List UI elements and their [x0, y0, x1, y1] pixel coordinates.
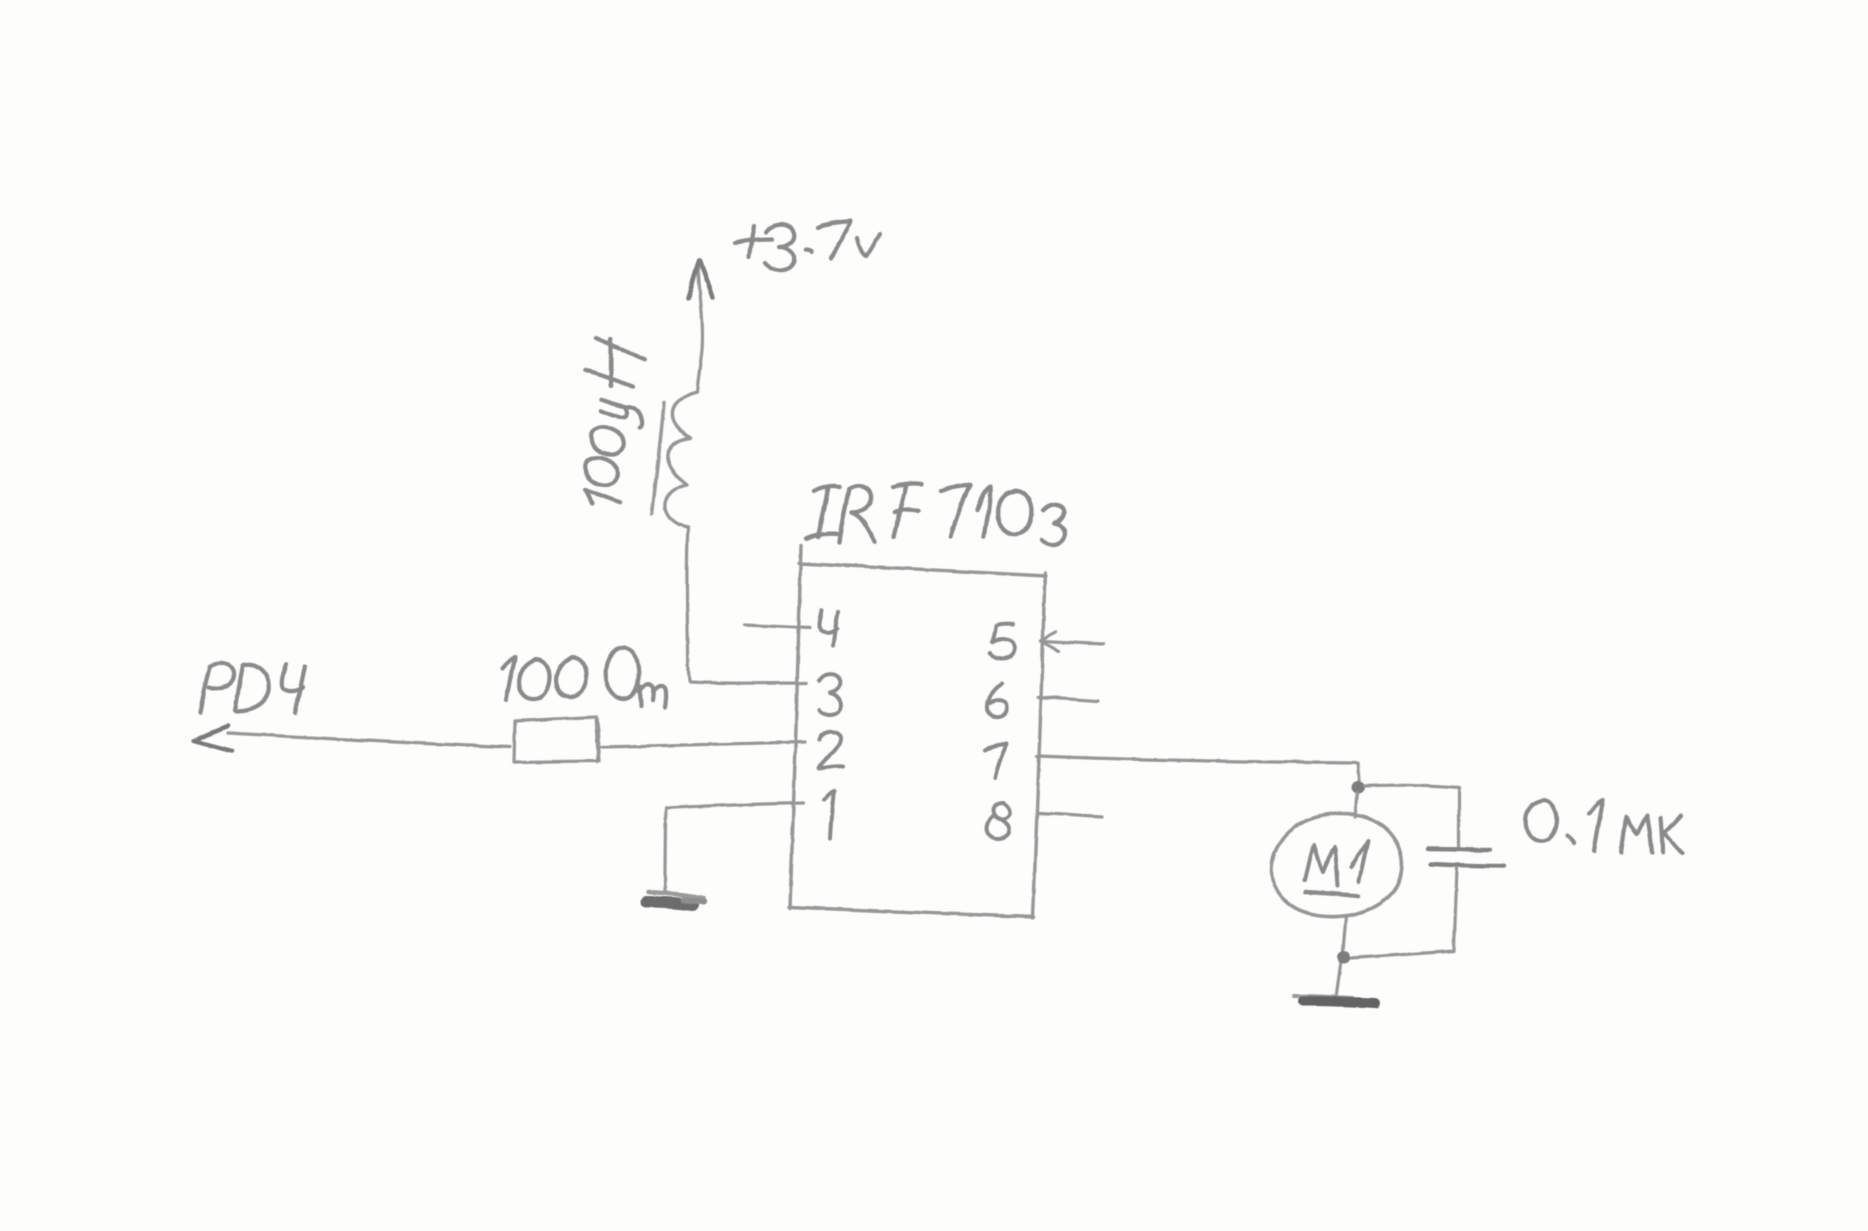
- label 0.1mk: [1526, 800, 1682, 853]
- label M1: [1305, 841, 1368, 896]
- pin number 8: [987, 803, 1010, 839]
- label 100uH (rotated): [561, 336, 657, 510]
- motor M1 top lead: [1355, 793, 1357, 817]
- wire pin 7 to motor node: [1037, 756, 1360, 786]
- IC U1 bottom edge: [789, 907, 1034, 917]
- label IRF7103: [806, 483, 1065, 544]
- pin number 1: [824, 791, 834, 838]
- IC U1 top edge: [799, 563, 1046, 576]
- wire L1 to pin 3: [687, 527, 806, 683]
- pin number 4: [819, 610, 838, 646]
- label +3.7v: [735, 221, 880, 270]
- label 100 Om: [502, 648, 666, 707]
- resistor R1 doubled right edge: [597, 719, 599, 762]
- capacitor C1 bottom plate: [1430, 864, 1504, 866]
- pin 5 stub with arrowhead: [1041, 632, 1103, 651]
- junction node B (bottom): [1338, 951, 1351, 964]
- wire node A to capacitor C1: [1365, 785, 1459, 847]
- ground GND1: [646, 892, 704, 905]
- IC U1 right edge: [1033, 573, 1045, 918]
- motor M1 body: [1272, 814, 1402, 917]
- arrowhead +3.7v: [688, 261, 713, 298]
- pin number 2: [819, 732, 843, 768]
- junction node A (top): [1352, 781, 1365, 794]
- wire capacitor to node B: [1350, 951, 1454, 958]
- capacitor C1 top plate: [1428, 849, 1490, 850]
- inductor L1 core bar: [652, 402, 664, 514]
- pin 6 stub: [1038, 697, 1098, 701]
- resistor R1 body: [514, 717, 599, 762]
- wire pin 1 to ground: [665, 803, 803, 891]
- label PD4: [200, 663, 305, 713]
- motor M1 bottom lead: [1343, 916, 1346, 951]
- capacitor C1 bottom lead: [1454, 868, 1457, 950]
- wire R1 to pin 2: [602, 742, 805, 747]
- arrowhead PD4: [194, 726, 232, 751]
- pin 8 stub: [1038, 813, 1102, 817]
- pin 4 stub: [744, 625, 810, 628]
- pin number 3: [819, 674, 841, 715]
- ground GND2: [1294, 996, 1375, 1003]
- pin number 6: [987, 683, 1007, 717]
- pin number 7: [985, 744, 1007, 778]
- pin number 5: [990, 624, 1014, 659]
- IC U1 IRF7103 left edge: [790, 546, 801, 908]
- ground GND2 stem: [1337, 964, 1341, 994]
- wire +3.7v rail (arrow shaft): [697, 265, 702, 392]
- wire node PD4 to resistor R1: [228, 733, 510, 747]
- inductor L1 coil: [665, 392, 697, 527]
